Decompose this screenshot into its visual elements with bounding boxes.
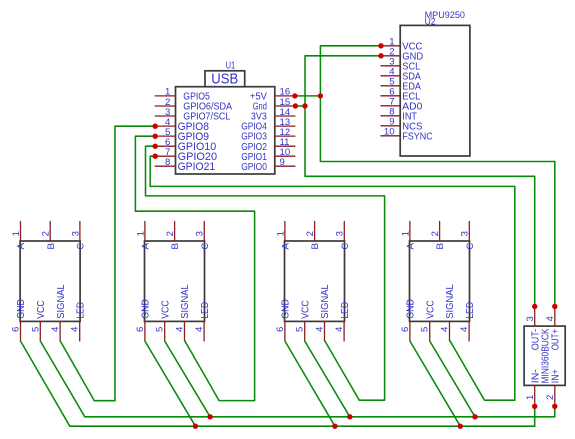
junction GND vertical x U1 pin15 wire: [302, 103, 307, 108]
svg-text:4: 4: [459, 326, 470, 332]
svg-text:8: 8: [165, 157, 170, 168]
connector J3 body: [285, 241, 345, 321]
U1 pin 16 (+5V) stub: [275, 95, 295, 97]
wire GND bus horizontal: [70, 425, 535, 427]
connector J3 bottom pin 4 (SIGNAL) stub: [324, 321, 326, 341]
svg-text:VCC: VCC: [300, 300, 311, 319]
U1 pin 15 (Gnd) stub: [275, 105, 295, 107]
connector J1 top pin 1 stub: [20, 222, 22, 242]
svg-text:9: 9: [280, 157, 285, 168]
svg-text:4: 4: [315, 326, 326, 332]
wire +5V net: U2 VCC to bus corner down to U3 OUT+: [320, 46, 554, 307]
connector J3 top pin 3 stub: [343, 222, 345, 242]
connector J2 bottom pin 4 (LED) stub: [203, 321, 205, 341]
svg-text:A: A: [281, 242, 292, 250]
connector J1 bottom pin 4 (SIGNAL) stub: [59, 321, 61, 341]
svg-text:SIGNAL: SIGNAL: [56, 284, 67, 319]
connector J3 top pin 2 stub: [314, 222, 316, 242]
connector J2 bottom pin 6 (GND) stub: [144, 321, 146, 341]
svg-text:4: 4: [175, 326, 186, 332]
U2 pin 7 (AD0) stub: [381, 105, 400, 107]
junction J2 VCC on bus: [207, 414, 212, 419]
wire GND: J1 GND diagonal to bus: [21, 341, 70, 426]
svg-text:1: 1: [400, 231, 411, 236]
wire GND: J3 GND diagonal: [285, 341, 335, 426]
junction U2 pin2: [378, 53, 383, 58]
U2 pin 1 (VCC) stub: [381, 45, 400, 47]
svg-text:U2: U2: [425, 17, 436, 28]
connector J2 bottom pin 4 (SIGNAL) stub: [184, 321, 186, 341]
svg-text:4: 4: [334, 326, 345, 332]
wire VCC: J3 VCC diagonal: [305, 341, 350, 417]
connector J2 top pin 3 stub: [203, 222, 205, 242]
U1 pin 3 (GPIO7/SCL) stub: [155, 115, 175, 117]
connector J3 bottom pin 6 (GND) stub: [284, 321, 286, 341]
U1 pin 9 (GPIO0) stub: [275, 165, 295, 167]
connector J2 top pin 2 stub: [174, 222, 176, 242]
U2 pin 8 (INT) stub: [381, 115, 400, 117]
svg-text:5: 5: [420, 327, 431, 332]
junction +5V vertical x U1 pin16 wire: [318, 93, 323, 98]
U3 pin 2 (IN+) stub: [554, 385, 556, 406]
wire GND: U1 pin15 to GND vertical: [295, 105, 305, 107]
svg-text:B: B: [310, 243, 321, 250]
U1 pin 12 (GPIO3) stub: [275, 135, 295, 137]
wire GPIO10 net: U1 pin6 to J3 SIGNAL: [146, 146, 385, 400]
svg-text:10: 10: [384, 127, 395, 138]
svg-text:B: B: [46, 243, 57, 250]
junction J3 VCC on bus: [347, 414, 352, 419]
wire GND net: U2 GND down right to U3 OUT-: [305, 56, 535, 307]
svg-text:OUT+: OUT+: [550, 329, 561, 351]
U2 pin 6 (ECL) stub: [381, 95, 400, 97]
svg-text:2: 2: [305, 231, 316, 236]
U2 pin 10 (FSYNC) stub: [381, 135, 400, 137]
U1 pin 5 (GPIO9) stub: [155, 135, 175, 137]
svg-text:6: 6: [11, 327, 22, 332]
svg-text:SIGNAL: SIGNAL: [320, 284, 331, 319]
U3 pin 3 (OUT-) stub: [534, 307, 536, 327]
svg-text:SIGNAL: SIGNAL: [445, 284, 456, 319]
connector J1 bottom pin 4 (LED) stub: [79, 321, 81, 341]
U3 pin 1 (IN-) stub: [534, 385, 536, 406]
svg-text:3: 3: [195, 231, 206, 236]
connector J4 body: [410, 241, 470, 321]
wire VCC bus to U3 IN+: [554, 406, 556, 417]
wire VCC: J1 VCC diagonal to bus: [40, 341, 85, 417]
svg-text:VCC: VCC: [160, 300, 171, 319]
U2 pin 2 (GND) stub: [381, 55, 400, 57]
junction J4 GND on bus: [458, 424, 463, 429]
junction U1 pin6: [153, 144, 158, 149]
svg-text:GND: GND: [406, 299, 417, 319]
U3 pin 4 (OUT+) stub: [554, 307, 556, 327]
connector J4 bottom pin 6 (GND) stub: [409, 321, 411, 341]
junction U1 pin16: [292, 93, 297, 98]
wire GPIO9 net: U1 pin5 to J2 SIGNAL: [135, 136, 254, 400]
connector J1 top pin 2 stub: [49, 222, 51, 242]
svg-text:4: 4: [194, 326, 205, 332]
svg-text:A: A: [16, 242, 27, 250]
svg-text:GPIO21: GPIO21: [178, 161, 216, 173]
svg-text:GND: GND: [281, 299, 292, 319]
wire +5V: U1 pin16 to +5V vertical: [295, 95, 321, 97]
svg-text:3: 3: [70, 231, 81, 236]
op U1 USB component body: [176, 87, 275, 174]
svg-text:LED: LED: [200, 302, 211, 319]
junction U1 pin7: [153, 154, 158, 159]
svg-text:2: 2: [41, 231, 52, 236]
svg-text:LED: LED: [75, 302, 86, 319]
connector J1 bottom pin 5 (VCC) stub: [39, 321, 41, 341]
svg-text:C: C: [465, 243, 476, 250]
connector J1 bottom pin 6 (GND) stub: [20, 321, 22, 341]
svg-text:6: 6: [275, 327, 286, 332]
connector J1 top pin 3 stub: [79, 222, 81, 242]
connector J2 top pin 1 stub: [144, 222, 146, 242]
svg-text:6: 6: [400, 327, 411, 332]
connector J4 bottom pin 5 (VCC) stub: [429, 321, 431, 341]
connector J4 top pin 3 stub: [468, 222, 470, 242]
junction U2 pin1: [378, 43, 383, 48]
connector J4 top pin 1 stub: [409, 222, 411, 242]
connector J3 bottom pin 4 (LED) stub: [343, 321, 345, 341]
junction U3 pin1 IN-: [532, 404, 537, 409]
junction U3 pin4 OUT+: [552, 304, 557, 309]
U1 pin 2 (GPIO6/SDA) stub: [155, 105, 175, 107]
U2 pin 9 (NCS) stub: [381, 125, 400, 127]
svg-text:VCC: VCC: [36, 300, 47, 319]
svg-text:GND: GND: [16, 299, 27, 319]
junction U1 pin5: [153, 134, 158, 139]
wire GND bus to U3 IN-: [534, 406, 536, 426]
junction U3 pin2 IN+: [552, 404, 557, 409]
wire GND: J2 GND diagonal: [145, 341, 196, 426]
svg-text:USB: USB: [211, 71, 238, 88]
svg-text:VCC: VCC: [425, 300, 436, 319]
svg-text:GPIO0: GPIO0: [241, 162, 267, 173]
U1 pin 8 (GPIO21) stub: [155, 165, 175, 167]
connector J4 bottom pin 4 (LED) stub: [468, 321, 470, 341]
svg-text:B: B: [170, 243, 181, 250]
svg-text:1: 1: [525, 395, 536, 400]
U1 pin 11 (GPIO2) stub: [275, 145, 295, 147]
svg-text:C: C: [76, 243, 87, 250]
wire VCC bus horizontal: [85, 416, 555, 418]
junction U3 pin3 OUT-: [532, 304, 537, 309]
connector J3 bottom pin 5 (VCC) stub: [304, 321, 306, 341]
wire VCC: J4 VCC diagonal: [430, 341, 475, 417]
svg-text:3: 3: [525, 316, 536, 321]
U1 pin 1 (GPIO5) stub: [155, 95, 175, 97]
svg-text:4: 4: [440, 326, 451, 332]
junction J3 GND on bus: [332, 424, 337, 429]
svg-text:B: B: [435, 243, 446, 250]
svg-text:3: 3: [460, 231, 471, 236]
svg-text:4: 4: [545, 316, 556, 322]
wire GPIO8 net: U1 pin4 to J1 SIGNAL: [60, 126, 155, 401]
svg-text:FSYNC: FSYNC: [402, 131, 433, 142]
U1 pin 13 (GPIO4) stub: [275, 125, 295, 127]
wire GPIO20 net: U1 pin7 to J4 SIGNAL: [150, 156, 515, 400]
wire GND: J4 GND diagonal: [410, 341, 460, 426]
U2 pin 4 (SDA) stub: [381, 75, 400, 77]
svg-text:4: 4: [50, 326, 61, 332]
svg-text:MINI360BUCK: MINI360BUCK: [540, 328, 551, 383]
wire VCC: J2 VCC diagonal: [165, 341, 210, 417]
junction U1 pin4: [153, 124, 158, 129]
junction J2 GND on bus: [193, 424, 198, 429]
svg-text:SIGNAL: SIGNAL: [180, 284, 191, 319]
svg-text:2: 2: [545, 395, 556, 400]
svg-text:1: 1: [275, 231, 286, 236]
U1 pin 4 (GPIO8) stub: [155, 125, 175, 127]
svg-text:4: 4: [70, 326, 81, 332]
svg-text:5: 5: [30, 327, 41, 332]
op U3 MINI360BUCK body: [524, 326, 565, 385]
U1 pin 6 (GPIO10) stub: [155, 145, 175, 147]
connector J3 top pin 1 stub: [284, 222, 286, 242]
svg-text:5: 5: [155, 327, 166, 332]
svg-text:A: A: [141, 242, 152, 250]
junction U1 pin15: [293, 103, 298, 108]
svg-text:5: 5: [295, 327, 306, 332]
svg-text:C: C: [200, 243, 211, 250]
svg-text:6: 6: [135, 327, 146, 332]
svg-text:LED: LED: [465, 302, 476, 319]
svg-text:C: C: [340, 243, 351, 250]
op U2 MPU9250 component body: [400, 25, 470, 156]
connector J4 top pin 2 stub: [439, 222, 441, 242]
junction J4 VCC on bus: [472, 414, 477, 419]
U1 pin 10 (GPIO1) stub: [275, 155, 295, 157]
connector J1 body: [20, 241, 80, 321]
svg-text:1: 1: [135, 231, 146, 236]
svg-text:LED: LED: [340, 302, 351, 319]
U2 pin 3 (SCL) stub: [381, 65, 400, 67]
U1 USB sub-box: [205, 71, 245, 87]
U1 pin 7 (GPIO20) stub: [155, 155, 175, 157]
U1 pin 14 (3V3) stub: [275, 115, 295, 117]
U2 pin 5 (EDA) stub: [381, 85, 400, 87]
svg-text:GND: GND: [141, 299, 152, 319]
connector J4 bottom pin 4 (SIGNAL) stub: [449, 321, 451, 341]
svg-text:3: 3: [335, 231, 346, 236]
svg-text:A: A: [406, 242, 417, 250]
svg-text:2: 2: [165, 231, 176, 236]
svg-text:1: 1: [11, 231, 22, 236]
svg-text:IN+: IN+: [550, 369, 561, 383]
connector J2 bottom pin 5 (VCC) stub: [164, 321, 166, 341]
connector J2 body: [145, 241, 205, 321]
svg-text:2: 2: [430, 231, 441, 236]
